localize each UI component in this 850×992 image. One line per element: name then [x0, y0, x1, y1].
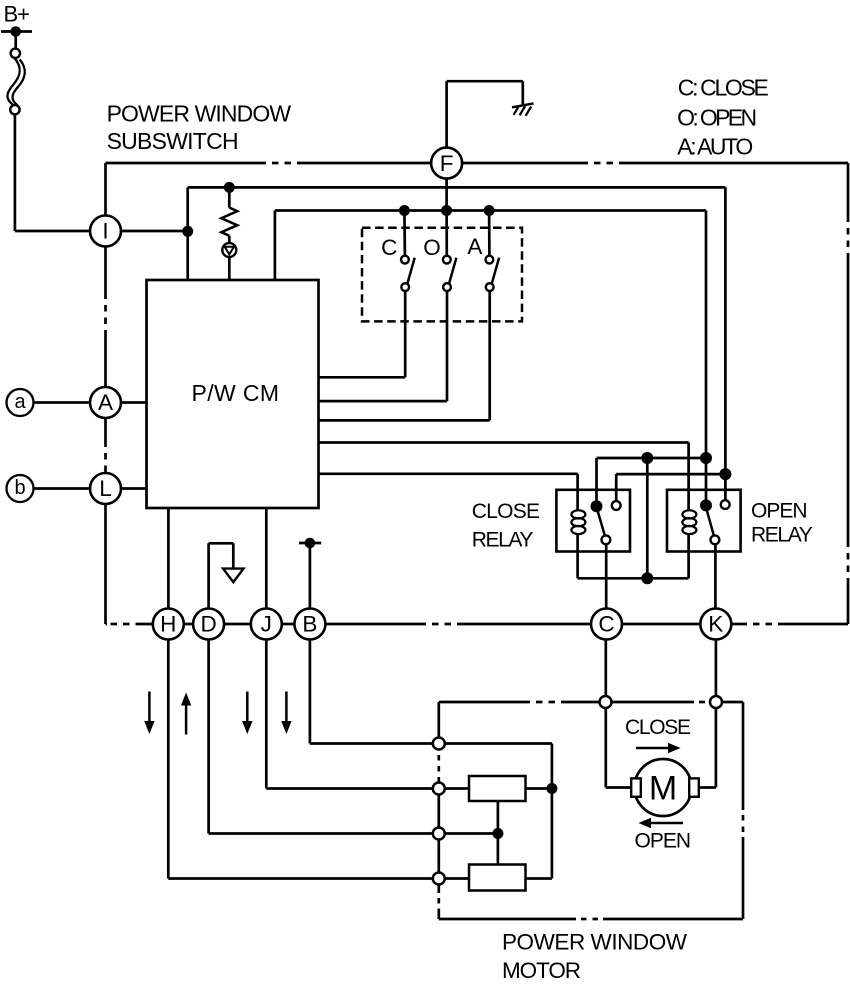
svg-text:CLOSE: CLOSE [472, 500, 540, 523]
svg-text:O: O [423, 235, 441, 260]
svg-text:a: a [14, 391, 26, 413]
svg-text:POWER WINDOW: POWER WINDOW [502, 929, 688, 954]
svg-text:OPEN: OPEN [751, 500, 808, 523]
svg-text:L: L [99, 476, 112, 501]
svg-text:F: F [440, 151, 454, 176]
svg-text:C: C [381, 235, 397, 260]
svg-text:MOTOR: MOTOR [502, 958, 581, 983]
svg-text:SUBSWITCH: SUBSWITCH [107, 128, 239, 154]
svg-text:B: B [302, 612, 317, 637]
svg-text:RELAY: RELAY [751, 523, 813, 546]
svg-text:K: K [708, 612, 723, 637]
svg-text:CLOSE: CLOSE [625, 716, 691, 739]
svg-text:POWER WINDOW: POWER WINDOW [107, 101, 292, 127]
svg-text:H: H [160, 612, 176, 637]
svg-text:I: I [102, 219, 108, 244]
svg-text:b: b [14, 477, 25, 499]
svg-text:P/W CM: P/W CM [192, 380, 280, 406]
svg-text:RELAY: RELAY [472, 529, 534, 552]
svg-text:OPEN: OPEN [635, 830, 692, 853]
svg-text:O: OPEN: O: OPEN [677, 104, 757, 130]
svg-text:A: A [98, 390, 113, 415]
svg-text:J: J [261, 612, 272, 637]
svg-text:M: M [649, 770, 677, 808]
svg-text:C: C [598, 612, 614, 637]
svg-text:B+: B+ [4, 2, 31, 27]
svg-text:A: AUTO: A: AUTO [677, 134, 753, 160]
svg-text:A: A [467, 234, 482, 259]
svg-text:D: D [200, 612, 216, 637]
svg-text:C: CLOSE: C: CLOSE [678, 75, 769, 101]
